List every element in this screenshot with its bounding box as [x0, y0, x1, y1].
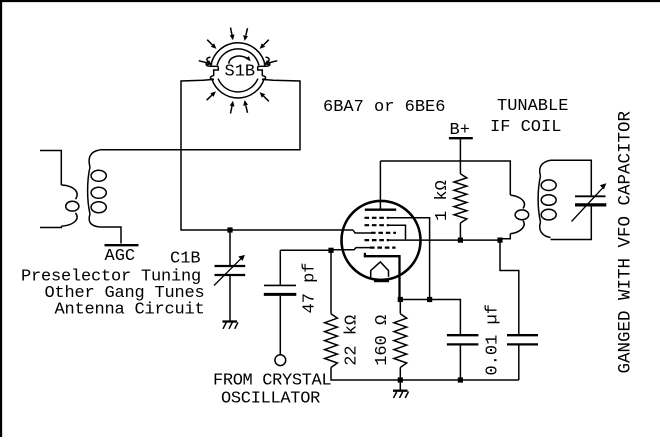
svg-text:IF COIL: IF COIL: [490, 118, 561, 137]
svg-text:C1B: C1B: [170, 250, 201, 269]
svg-text:GANGED WITH VFO CAPACITOR: GANGED WITH VFO CAPACITOR: [616, 110, 636, 373]
svg-text:22 kΩ: 22 kΩ: [342, 315, 361, 366]
svg-text:160 Ω: 160 Ω: [373, 315, 392, 366]
svg-text:AGC: AGC: [105, 247, 136, 266]
svg-text:1 kΩ: 1 kΩ: [433, 180, 452, 221]
svg-text:OSCILLATOR: OSCILLATOR: [221, 390, 320, 409]
svg-text:47 pf: 47 pf: [301, 262, 320, 313]
svg-text:S1B: S1B: [225, 63, 256, 82]
svg-text:6BA7 or 6BE6: 6BA7 or 6BE6: [323, 98, 445, 117]
svg-text:FROM CRYSTAL: FROM CRYSTAL: [213, 372, 331, 391]
svg-text:TUNABLE: TUNABLE: [497, 97, 568, 116]
svg-text:Antenna Circuit: Antenna Circuit: [55, 301, 205, 320]
svg-text:0.01 µf: 0.01 µf: [484, 304, 503, 375]
